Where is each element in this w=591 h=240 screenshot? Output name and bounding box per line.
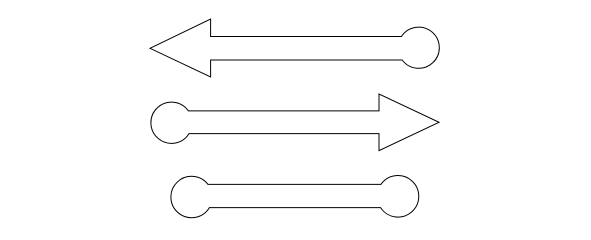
wire W3: straight link with circular terminals at both ends <box>171 176 419 218</box>
wire W2: right-pointing arrow with circular terminal at left end <box>151 94 439 151</box>
wire W1: left-pointing arrow with circular terminal at right end <box>150 19 439 77</box>
